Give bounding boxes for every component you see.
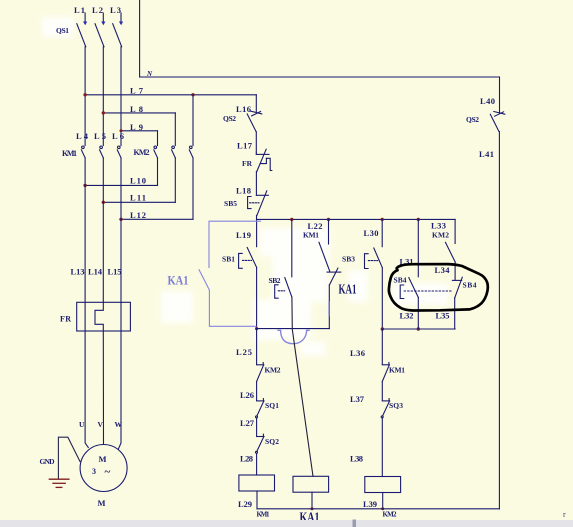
wire L11 horizontal [103,201,175,203]
limit switch SQ1 NC contact [256,399,265,418]
wire KM2 pole3 bottom [192,158,194,220]
junction dot rail SB3 [381,218,384,221]
svg-text:SB2: SB2 [269,276,281,285]
svg-text:SB4: SB4 [394,276,407,285]
contactor KM2 main pole 2 [172,146,176,158]
wire L10 horizontal [85,184,157,186]
svg-text:3: 3 [92,467,96,476]
wire L9 horizontal [121,130,158,132]
svg-text:KA1: KA1 [339,283,357,298]
contactor coil KM1 [239,475,275,491]
svg-text:L2: L2 [92,5,103,15]
junction dot L12 [119,218,122,221]
wire L37 [381,382,383,401]
wire L29 [256,491,258,509]
svg-text:SQ1: SQ1 [265,401,279,410]
svg-text:L1: L1 [74,5,85,15]
svg-text:L30: L30 [364,228,379,238]
junction dot rail SB2 [290,218,293,221]
wire motor line V upper [102,158,104,302]
wire L28 [256,453,258,475]
wire SB4a bottom [417,297,419,329]
wire node to KM2 interlock [256,329,258,365]
wire L36 [381,329,383,365]
contactor KM2 aux NO contact [445,242,455,262]
wire L2 top [102,13,104,22]
svg-text:L38: L38 [350,454,363,464]
relay KA1 contact blade (blue) [199,269,210,290]
ground symbol hatches [49,479,69,487]
switch QS2 left cross ticks [251,111,262,116]
ground wire [58,437,80,479]
wire phase A vertical [84,47,86,146]
svg-text:L26: L26 [240,390,254,400]
wire L7 horizontal [85,94,256,96]
svg-text:L41: L41 [479,149,494,159]
svg-text:L17: L17 [237,141,253,151]
contactor KM1 aux NO contact [319,242,341,272]
svg-text:L34: L34 [435,265,451,275]
svg-text:L37: L37 [350,394,365,404]
wire SB4b bottom [454,298,456,329]
contactor KM1 main pole 2 [100,146,104,158]
junction dot L7 KM2 tap [191,93,194,96]
wire motor lead U [85,331,88,448]
bottom strip cursor tick [353,520,357,527]
switch QS1 pole 3 [113,22,123,47]
svg-text:L18: L18 [236,186,251,196]
svg-text:L28: L28 [240,454,253,464]
wire bottom rail [257,508,499,510]
limit switch SQ2 NC contact [256,434,265,453]
annotation circle (hand drawn blob) [389,264,488,310]
svg-text:L10: L10 [130,176,146,186]
thermal relay FR heater element [95,302,103,331]
svg-text:SQ3: SQ3 [389,401,403,410]
junction dot rail SB4 [417,218,420,221]
svg-text:SB3: SB3 [342,255,355,264]
wire L34 [454,262,456,280]
svg-text:KM2: KM2 [383,511,398,519]
svg-text:~: ~ [105,466,111,478]
svg-text:L32: L32 [400,311,414,321]
junction dot L10 [83,184,86,187]
wire N horizontal rail [140,76,500,78]
wire SB2 to KA1 coil (slanted) [292,297,313,476]
junction dot L8 [102,111,105,114]
svg-text:L36: L36 [350,348,365,358]
svg-text:M: M [99,454,107,464]
junction dot L9 [120,129,123,132]
wire L38 [381,418,383,477]
wire N drop to QS2 right [499,77,501,113]
pushbutton SB2 NO contact [275,278,292,299]
svg-text:L35: L35 [436,311,450,321]
svg-text:GND: GND [40,457,56,466]
svg-text:L14: L14 [88,267,103,277]
contactor KM2 main pole 3 [189,146,193,158]
pushbutton SB4 NO contact [400,278,451,299]
wire L12 horizontal [121,218,193,220]
svg-text:KM1: KM1 [389,366,405,375]
wire control top rail [257,218,456,220]
wire motor line U upper [84,158,86,302]
svg-text:L25: L25 [236,347,252,357]
wire phase B vertical [102,47,104,146]
wire to rail [256,215,258,219]
wire SB1 to node [256,268,258,329]
wire motor line W upper [120,158,122,302]
switch QS1 pole 1 [77,22,87,47]
svg-text:KM2: KM2 [265,366,281,375]
relay KA1 NO contact branch (blue) [199,221,261,326]
svg-text:KA1: KA1 [168,273,189,288]
wire KM2 pole1 bottom [157,158,159,186]
junction dot KM2 coil rail [381,507,384,510]
svg-text:QS1: QS1 [56,26,69,35]
svg-text:L22: L22 [308,221,323,231]
svg-text:V: V [98,420,104,429]
wire phase C vertical [120,47,122,146]
wire L3 top [120,13,122,22]
svg-text:L39: L39 [363,499,377,509]
wire KM2 pole1 top [157,131,159,146]
contactor KM2 main pole 1 [154,146,158,158]
wire through FR left [84,302,86,331]
svg-text:QS2: QS2 [466,115,479,124]
pushbutton SB1 NO contact [239,248,257,269]
switch QS2 right cross ticks [494,112,505,117]
wire blue bottom [209,290,256,326]
thermal relay FR NC contact [256,149,272,171]
wire right rail vertical [498,132,500,509]
wire crossing hop (blue arc) [277,330,309,343]
pushbutton SB5 NC contact [248,191,269,216]
junction dot SB4 bottom [417,327,420,330]
wire SB4a branch top [417,219,419,276]
svg-text:M: M [98,498,106,508]
relay KA1 NO contact (series) [329,268,338,329]
svg-text:r: r [563,510,566,519]
svg-text:L33: L33 [431,221,446,231]
wire L26 [256,382,258,401]
wire through FR right [120,302,122,331]
svg-text:SB1: SB1 [222,255,235,264]
junction dot node A [255,327,258,330]
limit switch SQ3 NC contact [381,399,390,418]
relay coil KA1 [293,476,329,492]
contactor KM1 NC interlock contact [382,363,389,382]
svg-text:SB5: SB5 [224,199,237,208]
pushbutton SB3 NO contact [365,248,383,269]
contactor KM1 main pole 1 [81,146,85,158]
wire N vertical from top [139,0,141,77]
switch QS2 right blade [490,114,499,131]
wire SB3 to node B [381,268,383,329]
junction dot KA1 coil rail [311,507,314,510]
junction dot L11 [102,201,105,204]
wire SB2 branch top [291,219,293,276]
wire KM2 pole2 bottom [174,158,176,203]
wire blue overlay on KA1 drop [328,301,330,317]
contactor KM1 main pole 3 [117,146,121,158]
svg-text:KM2: KM2 [432,231,449,240]
wire motor lead V [102,331,104,445]
wire KA1 coil to rail [311,492,313,509]
svg-text:L3: L3 [110,5,121,15]
switch QS2 left blade [247,114,256,132]
wire KM2 aux top [454,219,456,243]
junction dot L7 phase A [83,93,86,96]
junction dot rail KM1 aux [327,218,330,221]
contactor coil KM2 [365,477,401,493]
svg-text:QS2: QS2 [223,114,236,123]
svg-text:KM1: KM1 [62,149,77,158]
wire L39 [382,493,384,509]
svg-text:L13: L13 [71,267,85,277]
pushbutton SB4 NC contact [452,277,462,298]
wire L18 [255,172,257,196]
svg-text:FR: FR [242,159,253,168]
wire KM2 pole2 top [174,113,176,146]
svg-text:L19: L19 [236,230,251,240]
svg-text:KM2: KM2 [134,148,150,157]
svg-text:L11: L11 [130,193,146,203]
wire L27 [256,418,258,436]
svg-text:L40: L40 [480,96,495,106]
wire KM1 aux branch top [328,219,330,244]
svg-text:L27: L27 [240,418,255,428]
wire blue top [209,221,261,268]
bottom window strip [0,520,573,527]
wire motor lead W [118,331,121,449]
thermal relay FR box [77,302,131,331]
svg-text:L29: L29 [238,499,252,509]
svg-text:FR: FR [60,315,71,324]
wire L19 [256,219,258,246]
wire node horizontal [257,328,330,330]
wire L17 [255,132,257,152]
svg-text:KM1: KM1 [303,231,319,240]
wire L1 top [84,13,86,22]
svg-text:L12: L12 [130,210,146,220]
svg-text:W: W [115,420,123,429]
motor M1 circle [80,445,127,492]
wire L8 horizontal [103,112,175,114]
svg-text:SB4: SB4 [463,281,477,290]
svg-text:U: U [79,420,85,429]
switch QS1 pole 2 [95,22,105,47]
wire L7 drop to QS2 left [255,95,257,113]
svg-text:SQ2: SQ2 [265,437,279,446]
svg-text:L16: L16 [236,104,251,114]
contactor KM2 NC interlock contact [257,363,264,382]
wire L30 [381,219,383,246]
wire KM2 pole3 top [192,95,194,146]
svg-text:L15: L15 [108,267,122,277]
wire right bottom horizontal [382,328,455,330]
junction dot node B [381,327,384,330]
svg-text:KM1: KM1 [257,511,271,519]
